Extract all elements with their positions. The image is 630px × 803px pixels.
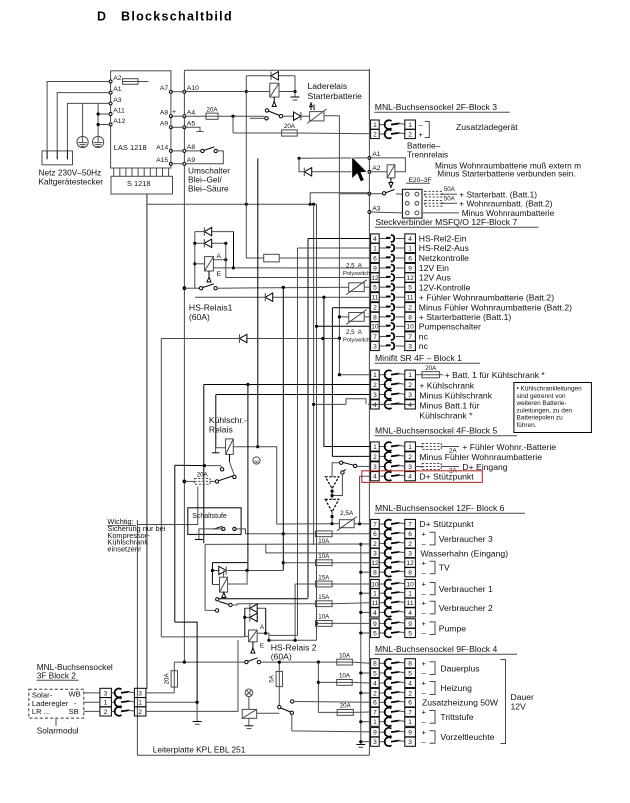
Heizung feed vertical (317, 662, 319, 712)
svg-text:A5: A5 (187, 121, 196, 128)
5A selector switch (278, 706, 281, 709)
wire A10 to relay (184, 91, 269, 93)
svg-text:+: + (422, 708, 427, 717)
trennrelais switch to E20 (368, 192, 371, 195)
wire from kuehlschrank box to ground (175, 622, 197, 702)
wire A3/earth net (67, 103, 110, 150)
solar leader (55, 718, 57, 726)
HS1 diode 2 (195, 242, 226, 244)
svg-text:sind getrennt von: sind getrennt von (517, 393, 566, 400)
HS2 output node (266, 633, 317, 640)
wire A9-A5 (171, 126, 185, 128)
svg-text:HS-Rel2-Aus: HS-Rel2-Aus (419, 243, 469, 253)
svg-text:12V Aus: 12V Aus (419, 273, 451, 283)
svg-text:Heizung: Heizung (440, 683, 472, 693)
wire to block5 pin1 (323, 339, 325, 447)
HS2 left leg (244, 608, 246, 636)
HS1 arm to bus switch (208, 271, 210, 279)
svg-text:+: + (422, 679, 427, 688)
svg-text:+ Kühlschrank: + Kühlschrank (419, 380, 474, 390)
svg-text:HS-Rel2-Ein: HS-Rel2-Ein (419, 234, 467, 244)
svg-text:nc: nc (419, 341, 429, 351)
inner circuit box left edge (183, 70, 185, 662)
svg-text:1: 1 (138, 700, 142, 707)
svg-text:A4: A4 (187, 109, 196, 116)
block6 pin 1 (371, 589, 380, 598)
schaltstufe input ground (199, 529, 223, 540)
svg-text:20A: 20A (425, 365, 437, 372)
wire 12V Ein (234, 267, 370, 269)
svg-text:Minus Fühler Wohnraumbatterie: Minus Fühler Wohnraumbatterie (Batt.2) (419, 302, 572, 312)
svg-text:A14: A14 (156, 144, 168, 151)
svg-text:10: 10 (406, 324, 414, 331)
Netzkontrolle resistor (246, 257, 263, 259)
svg-text:8: 8 (408, 314, 412, 321)
svg-text:11: 11 (371, 600, 378, 607)
svg-text:20A: 20A (164, 673, 171, 685)
svg-text:+: + (422, 619, 427, 628)
svg-text:Wasserhahn (Eingang): Wasserhahn (Eingang) (421, 548, 509, 558)
kuehlschrank feed wire y339 (161, 338, 323, 340)
svg-text:9: 9 (373, 265, 377, 272)
svg-text:Leiterplatte KPL EBL 251: Leiterplatte KPL EBL 251 (153, 744, 246, 754)
block6 pin 11 (371, 598, 380, 607)
block6 pin 5 (371, 628, 380, 637)
svg-text:Minus Kühlschrank: Minus Kühlschrank (419, 390, 492, 400)
svg-text:2: 2 (138, 709, 142, 716)
svg-text:ω: ω (254, 459, 259, 465)
HS2 diode 2 (245, 616, 258, 618)
solar pin1 to ground (146, 702, 197, 721)
svg-text:10A: 10A (339, 652, 351, 659)
HS1 relay coil (205, 257, 214, 271)
D+ aux contact (341, 471, 344, 474)
jumper jog on pin4 wire (368, 403, 415, 405)
svg-text:8: 8 (373, 314, 377, 321)
kuehlschrank box corner wire (175, 464, 205, 466)
block1 pin 2 (371, 380, 380, 389)
svg-text:Dauer: Dauer (511, 692, 535, 702)
wire A12 (98, 124, 111, 126)
HS1 E wire (213, 267, 233, 269)
svg-text:Kühlschr.-: Kühlschr.- (209, 415, 247, 425)
20A fuse kuehlschrank (415, 374, 422, 376)
A5 stub (184, 127, 200, 131)
svg-text:zuleitungen, zu den: zuleitungen, zu den (517, 407, 573, 414)
svg-text:A1: A1 (372, 151, 381, 158)
svg-text:20A: 20A (340, 703, 352, 710)
block6 pin 6 (371, 529, 380, 538)
svg-text:+ Batt. 1 für Kühlschrank *: + Batt. 1 für Kühlschrank * (445, 370, 546, 380)
wire Minus Fuehler from vertical (332, 307, 369, 309)
wire Pumpenschalter (317, 325, 370, 327)
wire HS-Rel2-Aus (298, 247, 370, 249)
dauerplus fuse 10A (337, 659, 353, 665)
svg-text:E: E (260, 643, 264, 650)
2A fuse row3 (415, 466, 422, 468)
svg-text:A2: A2 (372, 165, 381, 172)
wire S1218 to board / mains sense (147, 203, 317, 205)
svg-text:A7: A7 (160, 85, 169, 92)
A3 wire to E20 (369, 211, 402, 214)
svg-text:1: 1 (373, 245, 377, 252)
svg-text:10A: 10A (339, 673, 351, 680)
svg-text:Zusatzheizung 50W: Zusatzheizung 50W (422, 698, 499, 708)
svg-text:7: 7 (373, 709, 377, 716)
svg-text:A11: A11 (113, 107, 125, 114)
svg-text:Blockschaltbild: Blockschaltbild (121, 10, 233, 24)
svg-text:12V-Kontrolle: 12V-Kontrolle (419, 282, 471, 292)
svg-text:1: 1 (104, 700, 108, 707)
svg-text:A3: A3 (113, 97, 122, 104)
svg-text:Polyswitch: Polyswitch (343, 271, 370, 277)
svg-text:10: 10 (371, 324, 379, 331)
svg-text:5: 5 (373, 630, 377, 637)
block2 pin 3 (100, 688, 112, 697)
block7 pin 4 (371, 234, 380, 243)
svg-text:MNL-Buchsensockel 4F-Block 5: MNL-Buchsensockel 4F-Block 5 (375, 426, 497, 436)
svg-text:3: 3 (373, 739, 377, 746)
svg-text:4: 4 (408, 474, 412, 481)
svg-text:+: + (422, 598, 427, 607)
svg-text:Starterbatterie: Starterbatterie (308, 91, 363, 101)
svg-text:8: 8 (373, 570, 377, 577)
svg-text:1: 1 (408, 245, 412, 252)
pin A2 out (368, 170, 371, 173)
svg-text:+: + (422, 580, 427, 589)
svg-text:1: 1 (373, 372, 377, 379)
12V bus switch (183, 286, 187, 290)
polyswitch 2.5A to pin8 (339, 316, 348, 318)
svg-text:1: 1 (373, 719, 377, 726)
block2 pin 1 (100, 698, 112, 707)
block7 pin 6 (371, 253, 380, 262)
svg-text:Pumpe: Pumpe (439, 623, 466, 633)
svg-text:3: 3 (408, 392, 412, 399)
svg-text:2: 2 (373, 454, 377, 461)
wire plus kuehlschrank (204, 384, 370, 386)
svg-text:9: 9 (408, 730, 412, 737)
laderelais ground (294, 76, 296, 97)
svg-text:7: 7 (373, 334, 377, 341)
svg-text:A1: A1 (113, 86, 122, 93)
svg-text:9: 9 (408, 265, 412, 272)
svg-text:Verbraucher 2: Verbraucher 2 (439, 603, 493, 613)
svg-text:Blei–Säure: Blei–Säure (188, 184, 229, 194)
svg-text:Trittstufe: Trittstufe (440, 712, 473, 722)
svg-text:8: 8 (373, 661, 377, 668)
svg-text:Polyswitch: Polyswitch (343, 337, 370, 343)
S 1218 box (111, 176, 173, 194)
LAS 1218 mains charger module (111, 71, 171, 168)
svg-text:4: 4 (408, 236, 412, 243)
block1 pin 3 (371, 390, 380, 399)
HS1 A-terminal wire (213, 259, 225, 261)
svg-text:2: 2 (373, 382, 377, 389)
svg-text:MNL-Buchsensockel 12F- Block 6: MNL-Buchsensockel 12F- Block 6 (375, 503, 505, 513)
D+ switch at block5 pin3 (340, 461, 343, 464)
svg-text:Minus Batt.1 für: Minus Batt.1 für (419, 400, 479, 410)
50A fuse row2 (425, 201, 443, 207)
block7 pin 12 (371, 273, 380, 282)
svg-text:12V: 12V (511, 702, 527, 712)
svg-text:A9: A9 (187, 157, 196, 164)
vertical 283 (282, 287, 284, 570)
svg-text:8: 8 (408, 570, 412, 577)
svg-text:2: 2 (408, 454, 412, 461)
HS1 diode 1 (195, 231, 234, 233)
block6 pin 12 (371, 558, 380, 567)
block4 pin 5 (371, 668, 380, 677)
svg-text:3: 3 (408, 464, 412, 471)
svg-text:5: 5 (373, 285, 377, 292)
svg-text:D: D (97, 10, 106, 24)
Dauer 12V bracket (501, 660, 506, 744)
pumpe fuse (316, 622, 317, 624)
svg-text:6: 6 (408, 255, 412, 262)
svg-text:+: + (419, 130, 424, 139)
svg-text:Schaltstufe: Schaltstufe (192, 513, 227, 520)
svg-text:1: 1 (408, 372, 412, 379)
svg-text:(60A): (60A) (189, 312, 210, 322)
D+ Stuetzpunkt net (277, 523, 332, 525)
wire minus kuehlschrank (216, 394, 370, 396)
2A fuse row1 (415, 446, 422, 448)
verbraucher1 fuse (295, 583, 315, 585)
wire 12V Aus (226, 277, 370, 279)
svg-text:TV: TV (439, 563, 450, 573)
wire A4 through fuse 20A (184, 115, 206, 117)
svg-text:6: 6 (373, 255, 377, 262)
svg-text:3F Block 2: 3F Block 2 (37, 671, 77, 681)
svg-text:2: 2 (408, 541, 412, 548)
svg-text:4: 4 (373, 680, 377, 687)
svg-text:3: 3 (408, 343, 412, 350)
svg-text:1: 1 (408, 122, 412, 129)
fuse inside LAS on A2 line (123, 79, 139, 85)
note box kuehlschrankleitungen (514, 383, 592, 433)
svg-text:1: 1 (408, 591, 412, 598)
svg-text:7: 7 (373, 521, 377, 528)
svg-text:D+ Stützpunkt: D+ Stützpunkt (419, 519, 474, 529)
svg-text:3: 3 (373, 343, 377, 350)
wire A8-A4 plus (171, 115, 185, 117)
wire A15-A9 (171, 163, 185, 165)
wire A7-A10 (171, 91, 185, 93)
pump relay switch (223, 592, 225, 597)
svg-text:3: 3 (373, 464, 377, 471)
svg-text:3: 3 (138, 690, 142, 697)
wire A1 to plug (57, 93, 110, 151)
svg-text:5: 5 (408, 630, 412, 637)
svg-text:Trennrelais: Trennrelais (407, 150, 448, 160)
svg-text:9: 9 (373, 621, 377, 628)
block6 pin 7 (371, 519, 380, 528)
svg-text:1: 1 (373, 591, 377, 598)
block6 pin 9 (371, 619, 380, 628)
block1 pin 1 (371, 370, 380, 379)
block7 pin 3 (371, 341, 380, 350)
svg-text:4: 4 (408, 680, 412, 687)
wire from S1218 down (146, 194, 148, 689)
svg-text:Pumpenschalter: Pumpenschalter (419, 322, 481, 332)
PCB outline Leiterplatte KPL EBL 251 (184, 69, 369, 71)
svg-text:Batteriepolen zu: Batteriepolen zu (517, 415, 564, 422)
pump relay feed (205, 544, 215, 610)
svg-text:Relais: Relais (209, 425, 233, 435)
svg-text:Verbraucher 1: Verbraucher 1 (439, 584, 493, 594)
5A fuse (278, 662, 280, 671)
schaltstufe output to verbraucher3 (234, 529, 315, 534)
charge switch (265, 109, 268, 112)
block2 pin 2 (100, 707, 112, 716)
svg-text:2: 2 (373, 541, 377, 548)
svg-text:12V Ein: 12V Ein (419, 263, 449, 273)
svg-text:weiteren Batterie-: weiteren Batterie- (516, 400, 567, 407)
earth symbol 1 (77, 136, 88, 147)
svg-text:2: 2 (408, 131, 412, 138)
svg-text:10A: 10A (318, 614, 330, 621)
block7 pin 10 (371, 322, 380, 331)
wire wasserhahn (266, 544, 370, 553)
HS1 left rail (194, 232, 196, 289)
block5 pin 3 (371, 462, 380, 471)
svg-text:Minus Starterbatterie verbunde: Minus Starterbatterie verbunden sein. (437, 169, 575, 179)
vorzelt relay ground (248, 718, 250, 726)
block4 pin 3 (371, 737, 380, 746)
wire +Fuehler with diode (195, 296, 370, 298)
block7 pin 9 (371, 263, 380, 272)
svg-text:6: 6 (373, 531, 377, 538)
HS2 relay coil (249, 630, 258, 642)
block3 pin 1 (371, 120, 380, 129)
svg-text:A: A (217, 253, 222, 260)
svg-text:1: 1 (373, 444, 377, 451)
svg-text:2: 2 (408, 382, 412, 389)
svg-text:3: 3 (408, 739, 412, 746)
svg-text:führen.: führen. (517, 422, 537, 429)
block4 pin 4 (371, 678, 380, 687)
switch lower throw to Vorzeltleuchte (292, 714, 370, 732)
wire minus batt1 kuehlschrank (314, 403, 346, 405)
block7 pin 5 (371, 283, 380, 292)
svg-text:A12: A12 (113, 118, 125, 125)
block7 pin 8 (371, 312, 380, 321)
wire A2 to plug (47, 82, 111, 151)
svg-text:4: 4 (373, 610, 377, 617)
block5 pin 2 (371, 452, 380, 461)
svg-text:3: 3 (408, 550, 412, 557)
svg-text:A8: A8 (160, 110, 169, 117)
svg-text:Solarmodul: Solarmodul (37, 726, 79, 736)
block3 pin 2 (371, 129, 380, 138)
block7 pin 2 (371, 303, 380, 312)
svg-text:E: E (217, 271, 222, 278)
svg-text:(60A): (60A) (271, 651, 292, 661)
svg-text:7: 7 (408, 709, 412, 716)
svg-text:SB: SB (69, 707, 79, 716)
svg-text:A10: A10 (187, 85, 199, 92)
svg-text:Kaltgerätestecker: Kaltgerätestecker (39, 177, 104, 187)
block4 pin 9 (371, 728, 380, 737)
svg-text:11: 11 (407, 600, 414, 607)
TV feed net (212, 562, 248, 564)
svg-text:6: 6 (373, 700, 377, 707)
svg-text:2,5 A: 2,5 A (346, 329, 363, 336)
block7 pin 7 (371, 332, 380, 341)
diode to charger (283, 115, 295, 117)
svg-text:15A: 15A (318, 574, 330, 581)
wire HS-Rel2-Ein (308, 238, 370, 240)
svg-text:50A: 50A (444, 195, 456, 202)
block5 pin 1 (371, 442, 380, 451)
svg-text:20A: 20A (284, 123, 296, 130)
svg-text:20A: 20A (207, 106, 219, 113)
svg-text:20A: 20A (197, 472, 209, 479)
svg-text:1: 1 (373, 122, 377, 129)
block4 pin 8 (371, 659, 380, 668)
svg-text:Laderelais: Laderelais (308, 81, 348, 91)
svg-text:2: 2 (373, 131, 377, 138)
block6 pin 4 (371, 608, 380, 617)
laderelais top line with diode (246, 75, 295, 77)
block6 pin 10 (371, 579, 380, 588)
Heizung 10A fuse (318, 681, 336, 683)
svg-text:3: 3 (373, 550, 377, 557)
pin A1 out (368, 156, 371, 159)
block7 pin 11 (371, 293, 380, 302)
svg-text:2: 2 (408, 305, 412, 312)
svg-text:11: 11 (371, 295, 378, 302)
svg-text:A2: A2 (113, 75, 122, 82)
svg-text:7: 7 (408, 521, 412, 528)
svg-text:11: 11 (407, 295, 414, 302)
svg-text:1: 1 (408, 444, 412, 451)
mouse cursor artifact (352, 157, 367, 182)
svg-text:6: 6 (408, 700, 412, 707)
svg-text:Vorzeltleuchte: Vorzeltleuchte (440, 732, 494, 742)
svg-text:+: + (422, 659, 427, 668)
svg-text:10A: 10A (318, 553, 330, 560)
solar 20A vertical fuse (146, 692, 174, 694)
svg-text:D+ Stützpunkt: D+ Stützpunkt (419, 472, 474, 482)
block4 pin 2 (371, 688, 380, 697)
svg-text:4: 4 (373, 402, 377, 409)
block4 pin 1 (371, 717, 380, 726)
wire from 204 vertical (204, 465, 220, 467)
block4 pin 6 (371, 698, 380, 707)
svg-text:• Kühlschrankleitungen: • Kühlschrankleitungen (517, 386, 583, 393)
block6 pin 8 (371, 568, 380, 577)
svg-text:2: 2 (104, 709, 108, 716)
relay arm to switch (273, 97, 275, 103)
row3 minus (422, 212, 459, 214)
svg-text:4: 4 (373, 236, 377, 243)
svg-text:12: 12 (371, 275, 379, 282)
svg-text:4: 4 (408, 610, 412, 617)
svg-text:12: 12 (406, 560, 414, 567)
D+ triangle 2 (325, 499, 339, 512)
Schaltstufe box (188, 508, 241, 535)
20A fuse dashed (Wichtig) (183, 480, 187, 484)
svg-text:2,5A: 2,5A (340, 510, 354, 517)
svg-text:1: 1 (408, 719, 412, 726)
svg-text:A8: A8 (187, 144, 196, 151)
laderelais coil (270, 83, 279, 97)
svg-text:Minus Fühler Wohnraumbatterie: Minus Fühler Wohnraumbatterie (419, 452, 542, 462)
svg-text:2: 2 (373, 690, 377, 697)
svg-text:7: 7 (408, 334, 412, 341)
